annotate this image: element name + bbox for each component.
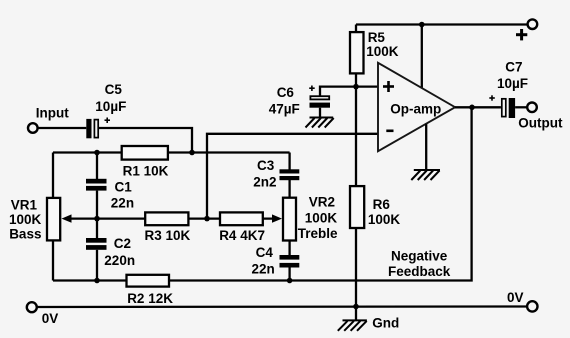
capacitor C2 [86,238,107,250]
wire C2 to bottom bus [96,250,98,281]
svg-text:Gnd: Gnd [372,315,399,330]
potentiometer VR1 [47,198,60,241]
junction bias node [353,84,359,90]
wire C6 to ground [319,108,321,118]
ground symbol Gnd [338,320,367,330]
svg-text:R3 10K: R3 10K [145,228,191,243]
resistor R6 [350,186,364,228]
ground symbol C6 [306,118,334,128]
junction C1 top [94,150,100,156]
resistor R1 [122,146,168,160]
wire 0V rail [37,305,527,308]
svg-text:R2 12K: R2 12K [127,291,173,306]
wire R3 R4 row [97,217,275,219]
wire C1 to C2 [96,191,98,239]
ground symbol op-amp [411,170,440,180]
wire plus input [320,87,378,96]
svg-text:R4 4K7: R4 4K7 [219,228,265,243]
svg-text:VR1: VR1 [11,197,38,212]
svg-text:10µF: 10µF [95,99,126,114]
svg-text:Input: Input [36,106,69,121]
wire C7 to output terminal [515,106,527,108]
svg-text:Feedback: Feedback [388,264,451,279]
resistor R5 [350,32,364,73]
wire C3 drop [288,153,290,170]
junction op-amp power tap [419,22,425,28]
svg-text:R5: R5 [368,30,386,45]
svg-text:C7: C7 [505,60,522,75]
wire C5 to node A [99,128,192,153]
svg-text:R1 10K: R1 10K [123,164,169,179]
svg-text:Output: Output [518,116,563,131]
svg-text:Op-amp: Op-amp [390,102,441,117]
wire bottom feedback bus [53,107,472,280]
terminal 0V right [527,301,537,311]
svg-text:2n2: 2n2 [253,174,276,189]
wire R5 R6 column [355,25,357,307]
svg-text:Treble: Treble [298,226,338,241]
svg-text:22n: 22n [252,261,275,276]
svg-text:100K: 100K [368,212,401,227]
wire op-amp power [421,25,423,89]
svg-text:C6: C6 [277,85,295,100]
potentiometer VR2 [283,198,296,241]
svg-text:Bass: Bass [9,227,41,242]
wire VR2 to C4 [288,241,290,256]
svg-text:C1: C1 [115,179,133,194]
wire VR1 bottom [52,240,54,280]
terminal Output [527,103,537,113]
wire C4 to feedback bus [288,268,290,281]
junction output node [469,105,475,111]
plus supply symbol [516,29,527,40]
svg-text:R6: R6 [373,197,391,212]
junction ground node [353,304,359,310]
VR2 wiper arrow [272,214,282,222]
svg-text:VR2: VR2 [309,195,335,210]
terminal 0V left [27,302,37,312]
svg-text:22n: 22n [111,195,134,210]
resistor R3 [145,212,188,225]
capacitor C4 [280,255,300,268]
svg-text:100K: 100K [305,210,338,225]
wire minus input feedback bus [207,134,378,219]
svg-text:10µF: 10µF [497,76,528,91]
svg-text:100K: 100K [9,212,42,227]
svg-text:C4: C4 [256,245,274,260]
resistor R2 [127,275,170,287]
svg-text:C3: C3 [257,158,275,173]
wire top supply rail [356,23,528,25]
VR1 wiper arrow [62,214,98,222]
junction C2 bottom [94,278,100,284]
wire C3 to VR2 [288,180,290,198]
terminal +V [528,19,538,29]
wire R1 row [53,151,290,153]
svg-text:0V: 0V [507,290,524,305]
terminal Input [28,123,38,133]
wire op-amp output [455,106,501,108]
wire input to C5 [38,127,87,129]
wire op-amp to ground [425,124,427,170]
junction C4 bottom [287,278,293,284]
junction wiper node [94,216,100,222]
wire C1 top segment [96,153,98,180]
resistor R4 [220,212,263,225]
op-amp U1 [378,63,455,151]
capacitor C1 [86,179,107,191]
capacitor C6 [309,86,330,108]
capacitor C7 [489,95,515,118]
wire ground stub [355,307,357,321]
wire VR1 top [52,153,54,198]
svg-text:220n: 220n [104,253,135,268]
svg-text:100K: 100K [366,44,399,59]
capacitor C5 [86,118,110,139]
svg-text:0V: 0V [42,311,59,326]
svg-text:47µF: 47µF [269,102,300,117]
junction node C (R3-R4) [204,216,210,222]
capacitor C3 [280,169,300,180]
junction node A [189,150,195,156]
svg-text:Negative: Negative [391,248,448,263]
svg-text:C5: C5 [105,82,123,97]
svg-text:C2: C2 [114,236,131,251]
